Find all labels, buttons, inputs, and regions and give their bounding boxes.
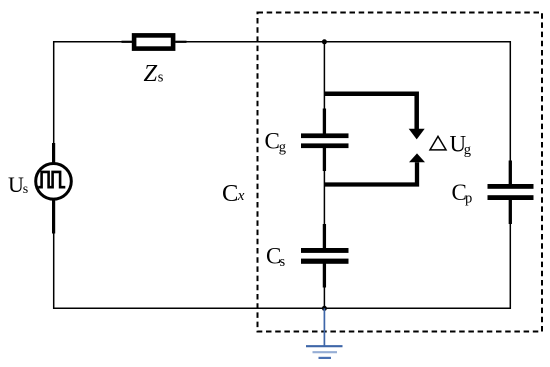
dashed box Cx boundary <box>258 13 543 332</box>
node junction dot bottom <box>322 306 327 311</box>
wire source bottom stub <box>52 199 55 234</box>
wire Cg top stub <box>323 109 326 135</box>
wire source top stub <box>52 143 55 164</box>
ground symbol bar 3 <box>319 357 332 359</box>
label Cs <box>266 243 286 269</box>
node junction dot top <box>322 39 327 44</box>
wire middle vertical from top node <box>323 42 325 109</box>
wire left vertical lower <box>53 234 55 310</box>
source Us circle <box>36 164 72 200</box>
label Us <box>8 172 28 197</box>
ground wire (blue) <box>323 308 325 346</box>
svg-text:C: C <box>265 128 280 153</box>
wire left vertical upper <box>53 41 55 143</box>
arrow top measurement lead with down arrowhead <box>324 94 424 140</box>
svg-text:s: s <box>23 182 28 197</box>
capacitor Cs <box>301 248 349 264</box>
svg-text:C: C <box>222 180 238 207</box>
wire resistor left stub <box>122 41 133 43</box>
svg-text:g: g <box>279 139 286 155</box>
label delta Ug <box>430 132 471 158</box>
label Zs <box>144 60 164 87</box>
wire resistor right stub <box>175 41 186 43</box>
wire Cs bottom stub <box>323 263 326 287</box>
capacitor Cg <box>301 133 349 148</box>
label Cp <box>452 180 473 207</box>
svg-text:g: g <box>464 142 471 158</box>
wire top-left horizontal <box>53 41 122 43</box>
wire Cp bottom stub <box>509 200 512 225</box>
label Cg <box>265 128 286 155</box>
svg-text:U: U <box>8 172 24 197</box>
svg-text:p: p <box>465 191 472 207</box>
svg-text:x: x <box>237 188 245 204</box>
wire middle vertical to bottom node <box>323 288 325 309</box>
wire bottom horizontal <box>53 307 511 309</box>
capacitor Cp <box>488 184 534 200</box>
wire right vertical upper <box>509 41 511 161</box>
ground symbol bar 2 <box>313 351 338 353</box>
source Us square-wave symbol <box>38 172 65 187</box>
wire right vertical lower <box>509 224 511 309</box>
resistor Zs <box>134 35 173 48</box>
ground symbol bar 1 <box>306 345 343 347</box>
wire Cs top stub <box>323 224 326 249</box>
arrow bottom measurement lead with up arrowhead <box>324 153 425 184</box>
svg-text:s: s <box>280 254 286 270</box>
wire Cp top stub <box>509 161 512 186</box>
wire top horizontal to right branch <box>187 41 512 43</box>
wire Cg bottom stub <box>323 148 326 171</box>
wire middle vertical between Cg and Cs <box>323 171 325 225</box>
svg-text:s: s <box>158 69 164 85</box>
svg-text:Z: Z <box>144 60 158 87</box>
label Cx <box>222 180 245 207</box>
